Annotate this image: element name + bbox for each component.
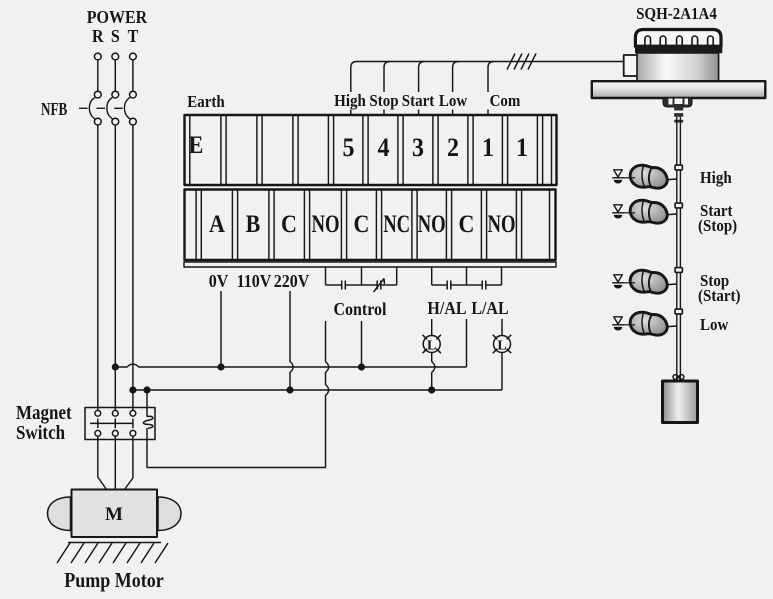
svg-text:Control: Control	[333, 299, 386, 319]
svg-text:Pump Motor: Pump Motor	[64, 570, 164, 592]
flange stem	[674, 104, 683, 123]
wire lamp L/AL to line2 end	[501, 353, 503, 391]
wire hook terminal 5	[351, 62, 357, 116]
cap ribs	[645, 36, 713, 46]
svg-text:220V: 220V	[274, 271, 310, 291]
terminal block top row	[185, 115, 557, 185]
svg-text:Start: Start	[402, 92, 435, 110]
wire coil top from line2	[146, 390, 148, 417]
wire line2 T to L/AL lamp	[133, 389, 502, 391]
wire T drop to breaker	[132, 60, 134, 91]
svg-text:High: High	[334, 92, 366, 110]
cable stop bead 1	[675, 165, 682, 170]
svg-text:2: 2	[447, 132, 459, 163]
counter weight	[663, 381, 698, 423]
svg-text:NO: NO	[418, 209, 446, 238]
svg-text:110V: 110V	[237, 271, 272, 291]
magnet switch linkage bar	[90, 422, 133, 424]
magnet switch pole T contacts	[130, 410, 136, 436]
float Stop	[630, 270, 677, 293]
wire L/AL NO to lamp	[501, 319, 503, 336]
motor body M	[72, 490, 158, 538]
svg-text:H/AL: H/AL	[427, 298, 466, 318]
svg-text:(Stop): (Stop)	[698, 217, 737, 235]
wire hook terminal 1	[488, 62, 494, 116]
cable stop bead 3	[675, 268, 682, 273]
wire S magnet switch to motor	[114, 436, 116, 489]
wire hook terminal 4	[384, 62, 390, 116]
float switch cable entry box	[624, 55, 638, 76]
junction dot 0V on line1	[217, 363, 224, 370]
float switch body cylinder	[637, 53, 719, 82]
terminal block bottom rail	[184, 262, 556, 267]
relay contacts control NO-C-NC	[326, 268, 397, 286]
svg-text:NO: NO	[311, 209, 339, 238]
wire phase R down to magnet switch	[97, 125, 99, 411]
svg-text:0V: 0V	[209, 271, 229, 291]
svg-text:3: 3	[412, 132, 424, 163]
motor left cap	[48, 497, 71, 531]
contact NO-C bars	[342, 281, 346, 290]
breaker NFB pole S	[97, 91, 119, 125]
svg-text:T: T	[128, 26, 139, 46]
svg-text:Com: Com	[490, 92, 521, 110]
svg-text:E: E	[189, 132, 204, 160]
terminal block top row dividers	[221, 116, 543, 184]
wire H/AL C to line1 end	[466, 319, 468, 367]
wire R drop to breaker	[97, 60, 99, 91]
svg-text:Low: Low	[439, 92, 468, 110]
motor right cap	[158, 497, 181, 531]
cable hash marks	[507, 54, 536, 70]
contact L/AL bars	[482, 281, 486, 290]
junction dot lamp H/AL on line2	[428, 386, 435, 393]
level mark Low	[612, 317, 635, 331]
svg-text:R: R	[92, 26, 104, 46]
svg-text:SQH-2A1A4: SQH-2A1A4	[636, 5, 717, 23]
junction dot 220V on line2	[286, 386, 293, 393]
svg-text:NC: NC	[383, 209, 410, 238]
svg-text:4: 4	[378, 132, 390, 163]
magnet switch box	[85, 408, 155, 440]
terminal circle R top	[94, 53, 101, 60]
wire T magnet switch to motor	[125, 436, 133, 489]
svg-text:S: S	[111, 26, 120, 46]
terminal block bottom row dividers	[196, 191, 549, 260]
junction dot line2 at T	[129, 386, 136, 393]
svg-text:5: 5	[343, 132, 355, 163]
wire S drop to breaker	[114, 60, 116, 91]
svg-text:Magnet: Magnet	[16, 402, 72, 423]
svg-text:Stop: Stop	[369, 92, 398, 110]
svg-text:NFB: NFB	[41, 100, 68, 120]
motor mount hatching	[57, 543, 168, 564]
cable stop bead 2	[675, 203, 682, 208]
svg-text:(Start): (Start)	[698, 287, 740, 305]
contact H/AL bars	[447, 281, 451, 290]
breaker NFB pole R	[79, 91, 101, 125]
level mark Stop	[612, 275, 635, 289]
junction dot control C on line1	[358, 363, 365, 370]
svg-text:B: B	[246, 211, 261, 239]
flange nut	[663, 98, 692, 107]
magnet switch pole R contacts	[95, 410, 101, 436]
magnet switch coil	[143, 416, 152, 428]
svg-text:Low: Low	[700, 316, 729, 334]
lamp H/AL	[423, 335, 441, 353]
float Low	[630, 312, 677, 335]
svg-text:Switch: Switch	[16, 422, 65, 443]
svg-text:High: High	[700, 169, 732, 187]
wire phase S down to magnet switch	[114, 125, 116, 411]
junction dot line1 at S	[112, 363, 119, 370]
terminal circle S top	[112, 53, 119, 60]
wire phase T down to magnet switch	[132, 125, 134, 411]
cable stop bead 4	[675, 309, 682, 314]
suspension cable double line	[677, 117, 681, 381]
svg-text:C: C	[281, 211, 297, 239]
svg-text:POWER: POWER	[87, 7, 148, 27]
svg-text:L: L	[497, 339, 506, 354]
wire hook terminal 2	[453, 62, 459, 116]
lamp L/AL	[493, 335, 511, 353]
svg-text:M: M	[105, 504, 123, 525]
terminal block bottom row	[185, 190, 556, 261]
magnet switch pole S contacts	[112, 410, 118, 436]
wire control NO down to coil loop	[147, 321, 329, 468]
breaker NFB pole T	[114, 91, 136, 125]
relay contacts alarm NO-C-NO	[432, 268, 502, 286]
wire H/AL NO to lamp	[431, 319, 433, 336]
svg-text:1: 1	[516, 132, 528, 163]
wire control C to line1	[361, 321, 363, 367]
float Start	[630, 200, 677, 223]
svg-text:C: C	[354, 211, 370, 239]
float switch cap	[635, 30, 721, 47]
float switch neck band	[635, 46, 722, 53]
level mark Start	[612, 205, 635, 219]
wire line1 S to H/AL C with hop over T	[115, 364, 466, 367]
wire 220V to line2 with hop over line1	[290, 291, 293, 390]
float High	[630, 165, 677, 188]
svg-text:L/AL: L/AL	[471, 298, 508, 318]
svg-text:NO: NO	[487, 209, 515, 238]
wire cable run to float switch head	[356, 61, 624, 63]
svg-text:L: L	[427, 339, 436, 354]
float switch flange	[592, 81, 766, 98]
wire hook terminal 3	[419, 62, 425, 116]
terminal circle T top	[130, 53, 137, 60]
contact C-NC bars with NC slash	[374, 279, 385, 293]
junction dot line2 at coil wire	[143, 386, 150, 393]
svg-text:A: A	[209, 211, 226, 239]
wire lamp H/AL to line2 with hop over line1	[432, 353, 435, 391]
level mark High	[612, 170, 635, 184]
svg-text:Earth: Earth	[187, 93, 224, 111]
weight shackle	[673, 375, 684, 380]
svg-text:C: C	[459, 211, 475, 239]
wire R magnet switch to motor	[98, 436, 107, 489]
wire 0V to line1	[220, 291, 222, 367]
svg-text:1: 1	[482, 132, 494, 163]
